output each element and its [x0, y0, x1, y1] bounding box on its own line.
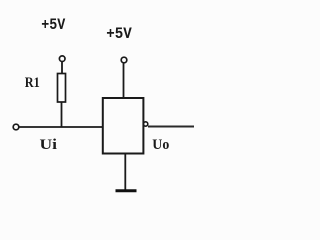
wire: right +5V terminal to IC top — [123, 63, 125, 98]
wire: left +5V terminal to resistor top — [61, 62, 63, 74]
ground — [116, 189, 137, 192]
terminal circle (left +5V) — [59, 56, 65, 62]
terminal circle (right +5V) — [121, 57, 127, 63]
IC / gate body U1 — [103, 98, 144, 154]
inverter output bubble — [143, 122, 147, 126]
svg-text:Uo: Uo — [152, 137, 169, 153]
resistor R1 body — [58, 74, 66, 103]
svg-text:+5V: +5V — [41, 16, 65, 34]
wire: output bubble to Uo — [148, 126, 194, 128]
wire: resistor bottom to input wire junction — [61, 102, 63, 127]
svg-text:R1: R1 — [25, 75, 40, 91]
svg-text:+5V: +5V — [106, 25, 132, 43]
wire: IC bottom to ground — [124, 154, 126, 191]
svg-text:Ui: Ui — [40, 137, 58, 153]
wire: input terminal to IC left side — [19, 126, 103, 128]
terminal circle (input Ui) — [13, 124, 19, 130]
